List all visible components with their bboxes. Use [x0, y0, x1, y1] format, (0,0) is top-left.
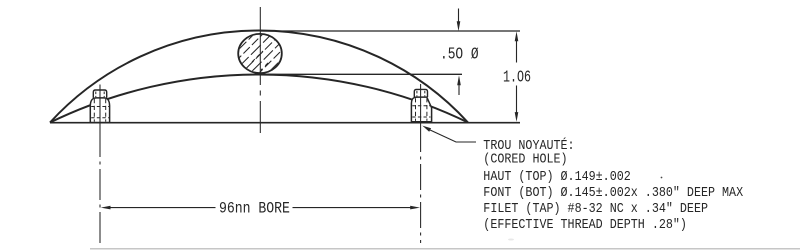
- svg-text:96nn BORE: 96nn BORE: [219, 200, 290, 217]
- svg-text:FILET (TAP) #8-32 NC x .34" DE: FILET (TAP) #8-32 NC x .34" DEEP: [483, 200, 708, 216]
- svg-text:1.O6: 1.O6: [503, 69, 531, 88]
- svg-text:FONT (BOT) Ø.145±.002x .380" D: FONT (BOT) Ø.145±.002x .380" DEEP MAX: [483, 184, 743, 200]
- svg-text:.5O Ø: .5O Ø: [440, 46, 479, 64]
- svg-text:HAUT (TOP) Ø.149±.002: HAUT (TOP) Ø.149±.002: [483, 168, 630, 184]
- svg-text:(EFFECTIVE THREAD DEPTH .28"): (EFFECTIVE THREAD DEPTH .28"): [483, 216, 687, 232]
- svg-text:(CORED HOLE): (CORED HOLE): [483, 151, 567, 167]
